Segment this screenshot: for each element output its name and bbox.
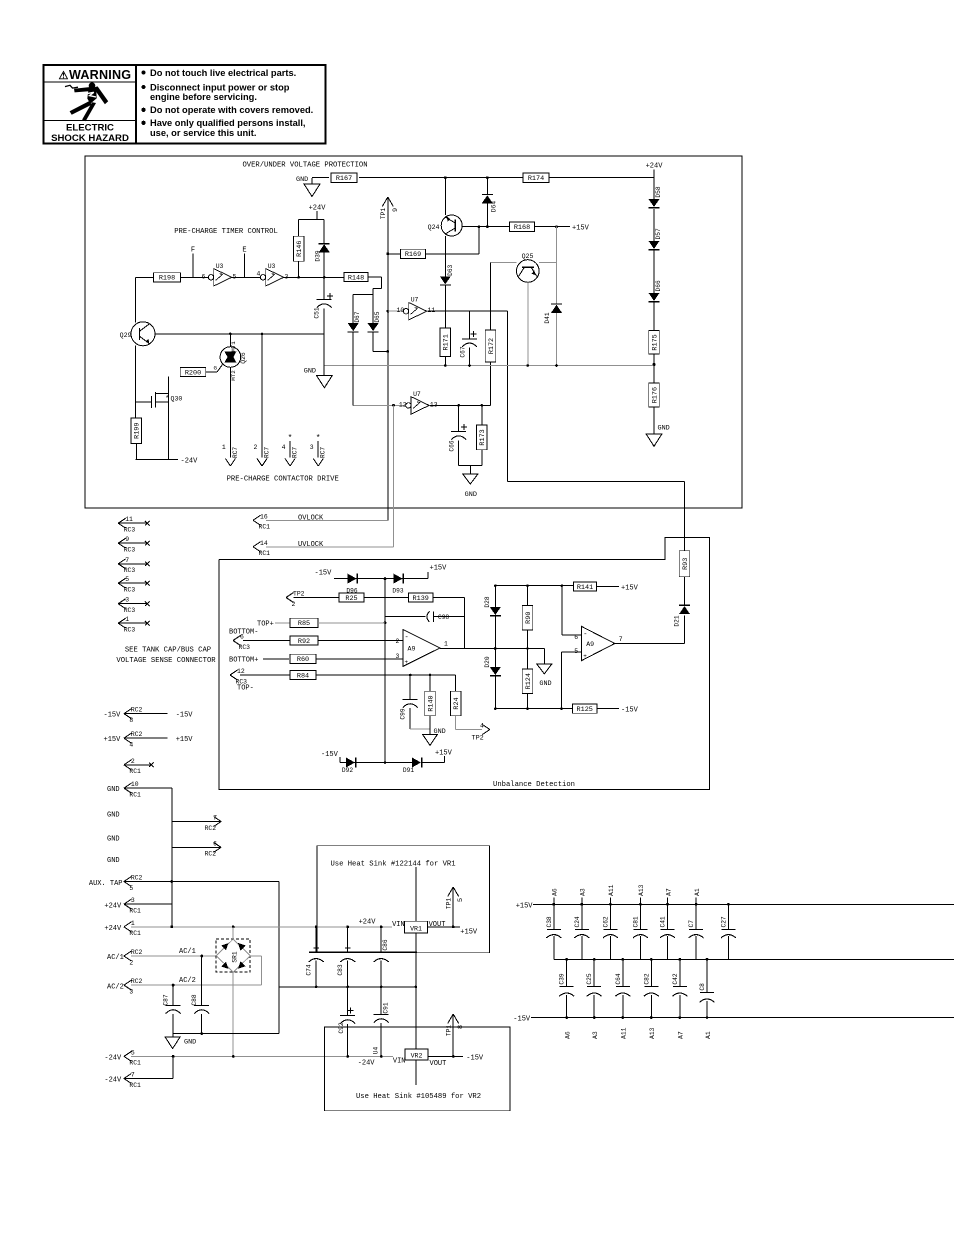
- wire Q26 MT2 down: [229, 367, 231, 457]
- resistor R176: [649, 383, 660, 407]
- node vout/TP1-8: [452, 1055, 455, 1058]
- wire mid gnd horizontal: [279, 986, 416, 988]
- node rail/C62: [609, 903, 612, 906]
- svg-text:C7: C7: [688, 920, 695, 928]
- node C88 bottom: [200, 1032, 203, 1035]
- svg-text:+: +: [405, 659, 409, 666]
- node -24V/C91: [380, 1055, 383, 1058]
- svg-text:C62: C62: [602, 916, 609, 927]
- svg-text:C24: C24: [574, 916, 581, 927]
- resistor R24: [450, 691, 461, 716]
- svg-text:D41: D41: [544, 312, 551, 323]
- node base/D64: [486, 225, 489, 228]
- svg-text:RC3: RC3: [239, 644, 251, 651]
- svg-text:Q29: Q29: [120, 332, 132, 339]
- svg-text:RC7: RC7: [292, 447, 299, 458]
- wire C64 bottom: [622, 995, 624, 1018]
- node mid/C42: [679, 958, 682, 961]
- wire C42 bottom: [679, 995, 681, 1018]
- svg-text:-24V: -24V: [104, 1054, 122, 1062]
- svg-text:2: 2: [129, 959, 133, 966]
- node botrail/C42: [679, 1016, 682, 1019]
- node R125/R124: [526, 707, 529, 710]
- capacitor C74: [305, 945, 323, 975]
- wire C39 top: [566, 959, 568, 986]
- capacitor C25: [586, 973, 602, 996]
- wire R198 left + down to Q29: [136, 277, 154, 322]
- regulator VR1: [404, 921, 427, 933]
- node R168/D41 riser: [555, 225, 558, 228]
- connector pin RC3-11: [118, 516, 150, 533]
- wire C7 top: [695, 904, 697, 929]
- svg-text:1: 1: [222, 444, 226, 451]
- svg-text:C8: C8: [699, 983, 706, 991]
- wire SR1 top: [232, 927, 234, 939]
- svg-text:engine before servicing.: engine before servicing.: [150, 92, 257, 102]
- wire R200 left column: [168, 377, 170, 460]
- svg-text:VOLTAGE SENSE CONNECTOR: VOLTAGE SENSE CONNECTOR: [116, 657, 216, 665]
- svg-text:R60: R60: [297, 656, 309, 664]
- svg-text:U3: U3: [268, 263, 276, 270]
- svg-text:2: 2: [254, 444, 258, 451]
- node R84/C99: [409, 674, 412, 677]
- wire TP2 to R25: [294, 597, 340, 599]
- svg-text:RC3: RC3: [124, 567, 136, 574]
- wire R198 to U3 pin6: [181, 276, 209, 278]
- wire output up to D21: [684, 616, 686, 644]
- node rail-Q24: [444, 176, 447, 179]
- node rail/C74: [315, 925, 318, 928]
- svg-text:R169: R169: [405, 251, 421, 259]
- wire C81 bottom: [639, 936, 641, 959]
- wire +15V jog (D93): [427, 572, 429, 579]
- wire UVLOCK: [266, 405, 394, 546]
- warning box frame: [44, 65, 326, 144]
- wire A9-2 output: [615, 643, 685, 645]
- wire VR2 vout: [428, 1055, 463, 1057]
- svg-text:RC1: RC1: [259, 524, 271, 531]
- svg-text:R175: R175: [651, 334, 659, 350]
- svg-text:6: 6: [213, 840, 217, 847]
- resistor R168: [510, 222, 535, 232]
- svg-text:RC1: RC1: [129, 768, 141, 775]
- inverter U3 (-3): [260, 263, 288, 286]
- svg-text:R84: R84: [297, 672, 309, 680]
- wire R93 top: [684, 538, 686, 551]
- connector pin RC1-1: [124, 920, 141, 937]
- svg-text:Q26: Q26: [240, 352, 247, 364]
- svg-text:RC2: RC2: [205, 851, 217, 858]
- svg-text:R198: R198: [159, 275, 175, 283]
- svg-text:U4: U4: [373, 1047, 380, 1055]
- connector pin 4-RC2: [124, 731, 168, 748]
- node bus bottom: [384, 761, 387, 764]
- wire pin6 riser: [561, 586, 563, 635]
- diode D92: [342, 758, 356, 775]
- node rail/C81: [639, 903, 642, 906]
- svg-text:C86: C86: [382, 939, 389, 950]
- svg-text:R171: R171: [443, 334, 451, 350]
- svg-text:R141: R141: [577, 584, 593, 592]
- wire R168 to +15V: [535, 226, 571, 228]
- capacitor C91: [374, 1002, 390, 1022]
- op-amp A9: [396, 630, 449, 667]
- svg-text:GND: GND: [107, 786, 120, 794]
- wire Q29 down to Q30/R199: [135, 346, 137, 419]
- capacitor C66: [449, 424, 467, 451]
- svg-text:-15V: -15V: [104, 712, 122, 720]
- svg-text:1: 1: [444, 640, 448, 647]
- wire C83 bottom: [347, 961, 349, 987]
- wire C41 bottom: [667, 936, 669, 959]
- svg-text:*: *: [288, 434, 293, 443]
- svg-text:4: 4: [480, 723, 484, 730]
- unbalance detection box: [219, 538, 710, 790]
- connector pin RC7-4: [282, 444, 299, 466]
- wire D57-D66: [653, 251, 655, 293]
- svg-text:AC/1: AC/1: [179, 948, 196, 956]
- triac Q26: [220, 341, 247, 381]
- svg-text:GND: GND: [465, 491, 477, 499]
- svg-text:RC3: RC3: [124, 587, 136, 594]
- node Q26 MT1: [229, 333, 232, 336]
- warning bullet list: [141, 68, 313, 138]
- svg-text:PRE-CHARGE CONTACTOR DRIVE: PRE-CHARGE CONTACTOR DRIVE: [227, 476, 339, 484]
- net stub A1 (top): [695, 898, 697, 905]
- connector pin 8-RC2: [124, 707, 168, 724]
- wire pin12 to R84: [240, 674, 290, 676]
- wire +15V rail (cap bank): [533, 903, 954, 905]
- svg-text:RC1: RC1: [259, 550, 271, 557]
- capacitor C99 column: [409, 675, 411, 700]
- node rail/bus: [170, 925, 173, 928]
- svg-text:6: 6: [240, 634, 244, 641]
- wire Q29 collector: [155, 333, 324, 335]
- electric shock pictogram: [65, 82, 108, 121]
- svg-text:14: 14: [260, 540, 268, 547]
- wire C39 bottom: [566, 995, 568, 1018]
- resistor R172: [485, 330, 496, 362]
- wire D66-R175: [653, 303, 655, 331]
- wire C24 bottom: [581, 936, 583, 959]
- test point TP2-4: [472, 723, 490, 743]
- svg-text:-24V: -24V: [104, 1077, 122, 1085]
- node R90 top: [526, 584, 529, 587]
- svg-text:A1: A1: [705, 1031, 712, 1039]
- wire rail to Q24 collector: [444, 178, 446, 215]
- svg-text:TP2: TP2: [293, 591, 305, 598]
- wire pin11 down to R93 feed: [507, 311, 684, 551]
- svg-text:7: 7: [131, 1072, 135, 1079]
- wire R90-R124: [527, 630, 529, 669]
- svg-text:7: 7: [619, 636, 623, 643]
- ground symbol (C87/C88): [165, 1037, 180, 1049]
- node rail/C24: [580, 903, 583, 906]
- diode D57: [649, 228, 663, 250]
- wire D96/D93 row: [334, 578, 385, 580]
- wire C82 bottom: [650, 995, 652, 1018]
- wire into U7 pin 12: [353, 404, 405, 406]
- node R146 bottom: [297, 276, 300, 279]
- ground symbol (C51): [316, 375, 332, 388]
- node rail/C86: [380, 925, 383, 928]
- resistor R198: [154, 273, 181, 283]
- svg-text:+: +: [583, 653, 587, 660]
- svg-text:R24: R24: [453, 697, 461, 709]
- net stub A11 (top): [609, 898, 611, 905]
- heat sink box VR1: [317, 846, 490, 953]
- node mid/vr-gnd: [415, 986, 418, 989]
- svg-text:5: 5: [574, 648, 578, 655]
- node rail/C38: [552, 903, 555, 906]
- node long-wire/D41: [555, 364, 558, 367]
- svg-text:Q30: Q30: [171, 396, 183, 403]
- node mid/C82: [650, 958, 653, 961]
- wire Q25 base left segment: [491, 262, 517, 264]
- svg-text:-15V: -15V: [315, 570, 333, 578]
- wire C74 bottom: [315, 961, 317, 987]
- ground symbol top: [304, 184, 320, 197]
- svg-text:16: 16: [260, 513, 268, 520]
- test point TP1-9: [380, 197, 400, 520]
- wire D39 bottom: [323, 252, 325, 277]
- svg-text:C42: C42: [672, 973, 679, 984]
- svg-text:C99: C99: [400, 708, 407, 719]
- svg-text:4: 4: [257, 270, 261, 277]
- connector pin 3-RC2: [124, 978, 143, 995]
- svg-text:RC1: RC1: [129, 907, 141, 914]
- wire C51 gnd drop: [323, 334, 325, 375]
- svg-text:RC2: RC2: [131, 949, 143, 956]
- wire AC/2 jog to SR1: [250, 956, 261, 985]
- node long-wire/C67: [468, 364, 471, 367]
- svg-text:R168: R168: [514, 224, 530, 232]
- svg-text:9: 9: [125, 536, 129, 543]
- wire pin6 into A9: [562, 634, 582, 636]
- node AC1/C88: [200, 955, 203, 958]
- wire BOTTOM+ to R60: [263, 658, 289, 660]
- node D65/TP1 column: [386, 350, 389, 353]
- svg-text:A11: A11: [621, 1027, 628, 1039]
- capacitor C8: [699, 983, 715, 1002]
- resistor R167: [331, 173, 357, 183]
- test point TP1-5: [446, 887, 466, 927]
- net stub A13 (top): [639, 898, 641, 905]
- wire R148 right jog to D65: [368, 277, 381, 295]
- wire R124 bottom: [527, 693, 529, 708]
- svg-text:D39: D39: [315, 250, 322, 261]
- diode D66: [649, 280, 663, 302]
- resistor R90 column: [527, 586, 529, 606]
- wire D20 column: [494, 649, 496, 668]
- svg-text:TP1: TP1: [446, 898, 453, 909]
- node RC7-2 tap: [261, 333, 264, 336]
- node vout/TP1-5: [452, 925, 455, 928]
- svg-text:R140: R140: [427, 695, 435, 711]
- svg-text:+15V: +15V: [460, 929, 478, 937]
- node E tick: [244, 254, 246, 278]
- svg-text:2: 2: [292, 601, 296, 608]
- wire +24V column: [653, 170, 655, 200]
- svg-text:1: 1: [131, 920, 135, 927]
- connector pin RC7-2: [254, 444, 271, 466]
- wire D41 to long wire: [556, 313, 558, 366]
- svg-text:R148: R148: [348, 274, 364, 282]
- svg-text:use, or service this unit.: use, or service this unit.: [150, 128, 256, 138]
- wire C86 bottom: [380, 961, 382, 987]
- svg-text:2: 2: [396, 638, 400, 645]
- wire VR1 gnd column: [415, 867, 417, 1085]
- connector pin 2-TP2: [286, 591, 305, 608]
- svg-text:RC1: RC1: [129, 930, 141, 937]
- svg-text:GND: GND: [539, 680, 551, 688]
- wire down to gnd (C66/R173): [469, 465, 471, 474]
- svg-text:A6: A6: [564, 1031, 571, 1039]
- node mid/C39: [565, 958, 568, 961]
- wire D41 riser: [556, 227, 558, 304]
- wire D28 column: [494, 586, 496, 607]
- svg-text:C82: C82: [643, 973, 650, 984]
- wire D58-D57: [653, 209, 655, 241]
- resistor R175: [649, 331, 660, 355]
- connector pin RC3-1: [118, 616, 150, 633]
- node D28 top: [494, 584, 497, 587]
- svg-text:D65: D65: [374, 311, 381, 322]
- resistor R92: [290, 636, 318, 646]
- wire AC/1: [131, 955, 216, 957]
- node mid/C25: [593, 958, 596, 961]
- wire C38 top: [553, 904, 555, 929]
- diode D64: [482, 195, 498, 213]
- svg-text:RC3: RC3: [124, 607, 136, 614]
- wire R139 right jog down: [433, 598, 465, 617]
- resistor R85: [290, 618, 318, 628]
- svg-text:C27: C27: [720, 916, 727, 927]
- svg-text:+15V: +15V: [176, 736, 194, 744]
- node mid/C8: [706, 958, 709, 961]
- capacitor C38: [546, 916, 562, 938]
- resistor R172 column: [490, 263, 492, 330]
- svg-text:G: G: [214, 365, 218, 372]
- wire D67 top: [352, 295, 354, 323]
- capacitor C62: [602, 916, 618, 938]
- capacitor C82: [643, 973, 659, 996]
- wire -24V rail (timer): [136, 459, 178, 461]
- wire VR1 vout: [428, 926, 460, 928]
- svg-text:RC2: RC2: [131, 707, 143, 714]
- svg-text:GND: GND: [296, 176, 308, 184]
- svg-text:AC/1: AC/1: [107, 954, 124, 962]
- svg-text:Do not operate with covers rem: Do not operate with covers removed.: [150, 105, 313, 115]
- electric shock hazard label: [51, 123, 129, 144]
- resistor R141: [573, 582, 596, 592]
- svg-text:SR1: SR1: [232, 951, 239, 962]
- svg-text:4: 4: [129, 742, 133, 749]
- wire pin6 to R92: [243, 640, 290, 642]
- svg-text:+15V: +15V: [621, 585, 639, 593]
- diode D96: [346, 574, 357, 595]
- wire C66/R173 bottoms: [459, 464, 482, 466]
- wire -24V rail: [131, 1055, 393, 1057]
- svg-text:GND: GND: [658, 425, 670, 433]
- wire D65 bottom jog: [373, 332, 388, 352]
- svg-text:VOUT: VOUT: [430, 1060, 447, 1068]
- ground (top, near R167): [296, 176, 312, 184]
- svg-text:A13: A13: [649, 1027, 656, 1039]
- ground symbol (R90/R124): [537, 664, 552, 674]
- capacitor C27: [720, 916, 736, 938]
- resistor R125: [572, 704, 597, 714]
- node mid/C83: [346, 986, 349, 989]
- svg-text:3: 3: [396, 653, 400, 660]
- svg-text:Do not touch live electrical p: Do not touch live electrical parts.: [150, 68, 296, 78]
- svg-text:D66: D66: [655, 280, 662, 291]
- connector pin RC3-5: [118, 576, 150, 593]
- svg-text:VR1: VR1: [410, 926, 422, 933]
- node gnd tap: [526, 647, 529, 650]
- svg-text:Use Heat Sink #105489 for VR2: Use Heat Sink #105489 for VR2: [356, 1093, 481, 1101]
- resistor R90: [522, 606, 533, 630]
- svg-text:R90: R90: [525, 612, 533, 624]
- wire Q25 top right segment: [539, 262, 556, 264]
- wire OVLOCK: [266, 519, 388, 521]
- resistor R173 column: [481, 405, 483, 425]
- regulator VR2: [405, 1049, 428, 1060]
- svg-text:R199: R199: [134, 423, 142, 439]
- wire D67 bottom to pin12 wire: [352, 332, 354, 406]
- svg-text:Q24: Q24: [428, 224, 440, 231]
- capacitor C98 (feedback): [385, 611, 465, 622]
- capacitor C41: [660, 916, 676, 938]
- wire AC/2: [131, 984, 262, 986]
- capacitor C88: [191, 994, 209, 1013]
- wire aux tap vertical: [278, 882, 280, 1034]
- connector pin RC3-9: [118, 536, 150, 553]
- node -24V/SR1: [232, 1055, 235, 1058]
- svg-text:D92: D92: [342, 767, 353, 774]
- wire rail R174 to +24V: [548, 177, 654, 179]
- wire C64 top: [622, 959, 624, 986]
- wire C74 top: [315, 927, 317, 952]
- wire +24V drop: [299, 211, 325, 244]
- diode D41: [544, 304, 562, 324]
- connector pin RC1-7: [124, 1072, 173, 1089]
- capacitor C92: [338, 1008, 355, 1034]
- connector pin RC7-1: [222, 444, 239, 466]
- wire R125 row: [495, 708, 573, 710]
- svg-text:5: 5: [125, 576, 129, 583]
- wire C83 top: [347, 927, 349, 952]
- resistor R139: [409, 593, 433, 603]
- wire D63 to pin11 wire: [444, 285, 446, 311]
- diode D91: [403, 758, 422, 775]
- svg-text:UVLOCK: UVLOCK: [298, 541, 324, 549]
- svg-text:3: 3: [129, 988, 133, 995]
- node mid/C86: [380, 986, 383, 989]
- svg-text:A9: A9: [586, 641, 594, 648]
- svg-text:C98: C98: [438, 614, 449, 621]
- svg-text:C83: C83: [337, 964, 344, 975]
- svg-text:TOP-: TOP-: [237, 685, 254, 693]
- svg-text:C51: C51: [314, 307, 321, 318]
- connector pin RC2-6: [172, 840, 221, 857]
- svg-text:+24V: +24V: [646, 163, 664, 171]
- resistor R124: [522, 669, 533, 693]
- svg-text:WARNING: WARNING: [69, 68, 131, 82]
- svg-text:A7: A7: [678, 1031, 685, 1039]
- capacitor C88 column: [201, 956, 203, 1006]
- svg-text:R174: R174: [528, 175, 544, 183]
